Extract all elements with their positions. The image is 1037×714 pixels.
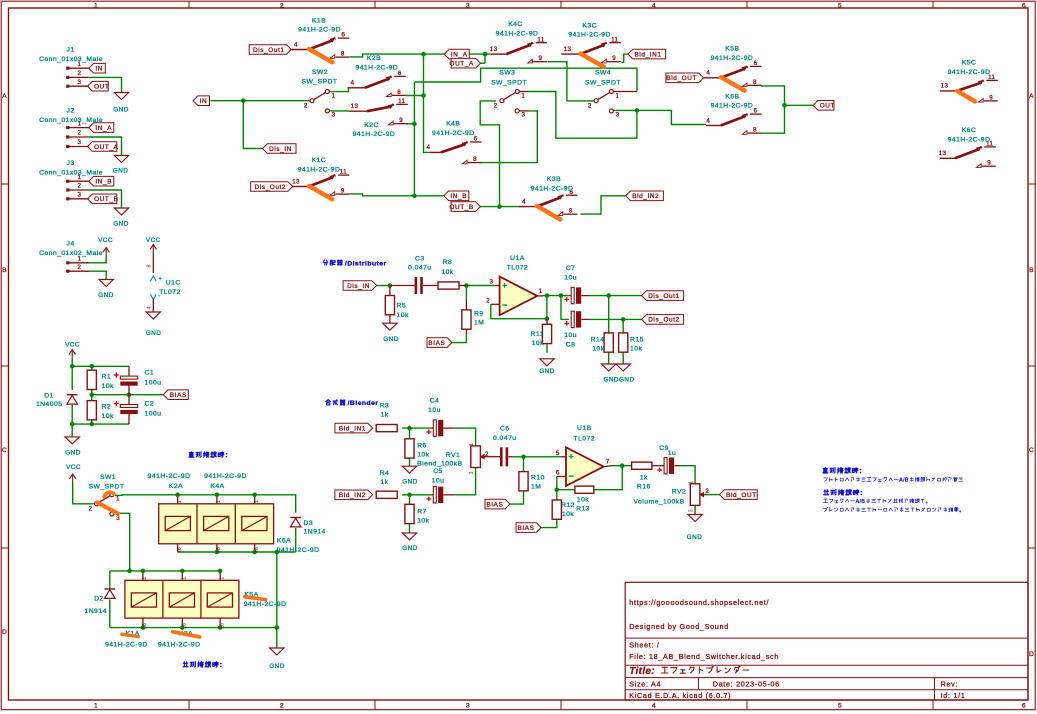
svg-text:A/B: A/B [899, 478, 909, 484]
svg-text:U1B: U1B [577, 425, 592, 432]
svg-text:11: 11 [398, 98, 405, 105]
svg-text:OUT_B: OUT_B [94, 196, 118, 203]
svg-text:C4: C4 [430, 398, 440, 405]
svg-text:13: 13 [564, 46, 572, 53]
svg-text:941H-2C-9D: 941H-2C-9D [432, 130, 475, 137]
svg-text:10k: 10k [102, 413, 114, 420]
svg-text:4: 4 [652, 703, 656, 710]
svg-text:Dis_Out2: Dis_Out2 [254, 184, 286, 191]
svg-text:+: + [114, 398, 119, 408]
svg-text:Title:: Title: [629, 666, 655, 677]
svg-text:3: 3 [469, 471, 475, 474]
svg-text:1N914: 1N914 [304, 529, 326, 536]
svg-text:6: 6 [754, 108, 758, 115]
svg-text:+: + [568, 451, 573, 461]
svg-text:GND: GND [146, 330, 162, 337]
svg-text:R15: R15 [630, 337, 644, 344]
svg-text:R12: R12 [561, 502, 575, 509]
svg-text:K1C: K1C [312, 157, 327, 164]
svg-text:16: 16 [216, 547, 222, 553]
svg-text:10k: 10k [592, 346, 604, 353]
svg-text:16: 16 [182, 623, 188, 629]
svg-text:Designed by Good_Sound: Designed by Good_Sound [629, 622, 729, 631]
svg-text:R7: R7 [417, 509, 427, 516]
svg-text:1: 1 [182, 577, 188, 580]
svg-text:TL072: TL072 [574, 436, 596, 443]
svg-text:5: 5 [838, 703, 842, 710]
svg-text:1k: 1k [380, 412, 388, 419]
svg-text:1: 1 [469, 443, 475, 446]
svg-text:4: 4 [522, 198, 526, 205]
svg-text:R13: R13 [576, 506, 590, 513]
svg-text:Bld_IN2: Bld_IN2 [339, 492, 366, 499]
svg-text:11: 11 [611, 36, 618, 43]
svg-text:K3C: K3C [582, 23, 597, 30]
svg-text:1: 1 [177, 500, 183, 503]
svg-text:C: C [1029, 447, 1034, 454]
svg-text:941H-2C-9D: 941H-2C-9D [531, 186, 574, 193]
svg-text:11: 11 [537, 36, 544, 43]
svg-text:C1: C1 [145, 370, 155, 377]
svg-text:C: C [2, 447, 7, 454]
svg-text:2: 2 [78, 183, 82, 190]
svg-text:2: 2 [78, 264, 82, 271]
svg-text:1: 1 [142, 577, 148, 580]
svg-text:Dis_Out1: Dis_Out1 [253, 47, 285, 54]
svg-text:Dis_IN: Dis_IN [269, 146, 292, 153]
svg-text:+: + [564, 294, 569, 304]
svg-text:SW_SPDT: SW_SPDT [88, 484, 124, 491]
svg-text:OUT_A: OUT_A [94, 144, 119, 151]
svg-text:Dis_Out2: Dis_Out2 [648, 317, 680, 324]
svg-text:SW_SPDT: SW_SPDT [301, 79, 337, 86]
svg-text:D1: D1 [44, 393, 54, 400]
svg-text:10k: 10k [417, 518, 429, 525]
svg-text:941H-2C-9D: 941H-2C-9D [355, 64, 398, 71]
svg-text:Blend_100kB: Blend_100kB [417, 461, 462, 468]
svg-text:VCC: VCC [65, 342, 80, 349]
svg-text:13: 13 [351, 103, 359, 110]
svg-text:2: 2 [88, 506, 92, 513]
svg-text:A: A [2, 93, 7, 100]
svg-text:6: 6 [556, 469, 560, 476]
svg-text:941H-2C-9D: 941H-2C-9D [711, 103, 754, 110]
svg-text:VCC: VCC [146, 237, 161, 244]
svg-text:K4B: K4B [446, 121, 460, 128]
svg-text:1: 1 [219, 577, 225, 580]
svg-text:16: 16 [219, 623, 225, 629]
svg-text:4: 4 [351, 80, 355, 87]
svg-text:IN_B: IN_B [450, 193, 467, 200]
svg-text:Dis_Out1: Dis_Out1 [648, 293, 680, 300]
svg-text:1: 1 [94, 703, 98, 710]
svg-text:941H-2C-9D: 941H-2C-9D [277, 547, 320, 554]
svg-text:3: 3 [466, 2, 470, 9]
svg-text:/Blender: /Blender [348, 400, 379, 407]
svg-text:GND: GND [65, 450, 81, 457]
svg-text:941H-2C-9D: 941H-2C-9D [298, 167, 341, 174]
svg-text:K2A: K2A [169, 483, 183, 490]
svg-text:IN_A: IN_A [451, 51, 468, 58]
svg-text:Date: 2023-05-06: Date: 2023-05-06 [713, 679, 780, 688]
svg-text:1M: 1M [474, 320, 484, 327]
svg-text:R4: R4 [380, 470, 390, 477]
svg-text:1: 1 [539, 288, 543, 295]
svg-text:10k: 10k [532, 340, 544, 347]
svg-text:IN: IN [95, 66, 103, 73]
svg-text:13: 13 [490, 46, 498, 53]
svg-text:4: 4 [706, 70, 710, 77]
svg-text:8: 8 [341, 51, 345, 58]
svg-text:9: 9 [399, 117, 403, 124]
svg-text:3: 3 [616, 112, 620, 119]
svg-text:1N4005: 1N4005 [36, 401, 63, 408]
svg-text:10k: 10k [102, 383, 114, 390]
svg-text:GND: GND [113, 168, 129, 175]
svg-text:R14: R14 [591, 337, 605, 344]
svg-text:8: 8 [397, 89, 401, 96]
svg-text:B: B [2, 267, 7, 274]
svg-text:−: − [568, 471, 573, 481]
svg-text:941H-2C-9D: 941H-2C-9D [105, 641, 148, 648]
svg-text:6: 6 [1022, 703, 1026, 710]
svg-text:4: 4 [294, 41, 298, 48]
svg-text:0.047u: 0.047u [493, 435, 517, 442]
svg-text:1k: 1k [380, 479, 388, 486]
svg-text:5: 5 [556, 450, 560, 457]
svg-text:9: 9 [341, 188, 345, 195]
svg-text:10k: 10k [397, 312, 409, 319]
svg-text:R6: R6 [417, 443, 427, 450]
svg-text:K3B: K3B [547, 176, 561, 183]
svg-text:9: 9 [987, 160, 991, 167]
svg-text:4: 4 [652, 2, 656, 9]
svg-text:2: 2 [705, 488, 709, 495]
svg-text:2: 2 [78, 130, 82, 137]
svg-text:3: 3 [116, 515, 120, 522]
svg-text:10k: 10k [630, 346, 642, 353]
svg-text:3: 3 [688, 509, 694, 512]
svg-text:9: 9 [612, 55, 616, 62]
svg-text:J4: J4 [67, 241, 75, 248]
svg-text:C3: C3 [415, 255, 425, 262]
svg-text:VCC: VCC [66, 464, 81, 471]
svg-text:941H-2C-9D: 941H-2C-9D [244, 601, 287, 608]
svg-text:1: 1 [688, 481, 694, 484]
svg-text:941H-2C-9D: 941H-2C-9D [148, 473, 191, 480]
svg-text:RV1: RV1 [446, 452, 460, 459]
svg-text:K6A: K6A [277, 537, 291, 544]
svg-text:BIAS: BIAS [517, 525, 534, 532]
svg-text:GND: GND [402, 479, 418, 486]
svg-text:10k: 10k [417, 452, 429, 459]
svg-text:IN_B: IN_B [95, 179, 112, 186]
svg-text:K4C: K4C [508, 21, 523, 28]
svg-text:16: 16 [142, 623, 148, 629]
svg-text:941H-2C-9D: 941H-2C-9D [298, 27, 341, 34]
svg-text:Bld_IN1: Bld_IN1 [635, 51, 662, 58]
svg-text:3: 3 [466, 703, 470, 710]
svg-text:6: 6 [398, 70, 402, 77]
svg-text:SW_SPDT: SW_SPDT [585, 79, 621, 86]
svg-text:R3: R3 [380, 402, 390, 409]
svg-text:GND: GND [402, 545, 418, 552]
svg-text:100u: 100u [145, 380, 162, 387]
svg-text:4: 4 [426, 144, 430, 151]
svg-text:5: 5 [838, 2, 842, 9]
svg-text:16: 16 [254, 547, 260, 553]
svg-text:K2C: K2C [364, 122, 379, 129]
svg-text:Bld_IN1: Bld_IN1 [339, 425, 366, 432]
svg-text:3: 3 [489, 279, 493, 286]
svg-text:GND: GND [269, 663, 285, 670]
svg-text:+: + [114, 370, 119, 380]
svg-text:A: A [1029, 93, 1034, 100]
svg-text:Conn_01x03_Male: Conn_01x03_Male [39, 170, 103, 177]
svg-text:R16: R16 [637, 484, 651, 491]
svg-text:10u: 10u [428, 407, 441, 414]
svg-text:RV2: RV2 [672, 488, 686, 495]
svg-text:+: + [158, 276, 162, 283]
svg-text:J2: J2 [67, 108, 75, 115]
svg-text:Rev:: Rev: [941, 679, 959, 688]
svg-text:TL072: TL072 [159, 289, 181, 296]
svg-text:10u: 10u [564, 332, 577, 339]
svg-text:+: + [502, 280, 507, 290]
svg-text:2: 2 [280, 703, 284, 710]
svg-text:8: 8 [753, 79, 757, 86]
svg-text:OUT: OUT [94, 84, 109, 91]
svg-text:C8: C8 [566, 342, 576, 349]
svg-text:941H-2C-9D: 941H-2C-9D [158, 641, 201, 648]
svg-text:941H-2C-9D: 941H-2C-9D [948, 69, 991, 76]
svg-text:C7: C7 [566, 265, 576, 272]
svg-text:BIAS: BIAS [170, 392, 187, 399]
svg-text:GND: GND [113, 107, 129, 114]
svg-text:7: 7 [606, 458, 610, 465]
svg-text:4: 4 [146, 307, 152, 310]
svg-text:File: 18_AB_Blend_Switcher.kic: File: 18_AB_Blend_Switcher.kicad_sch [629, 652, 779, 661]
svg-text:Conn_01x03_Male: Conn_01x03_Male [39, 117, 103, 124]
svg-text:Dis_IN: Dis_IN [347, 283, 370, 290]
svg-text:OUT_A: OUT_A [449, 61, 474, 68]
svg-text:R5: R5 [397, 303, 407, 310]
svg-text:IN: IN [200, 98, 208, 105]
svg-text:R2: R2 [102, 404, 112, 411]
svg-text:13: 13 [292, 178, 300, 185]
svg-text:8: 8 [146, 265, 152, 268]
svg-text:1: 1 [254, 500, 260, 503]
svg-text:941H-2C-9D: 941H-2C-9D [204, 473, 247, 480]
svg-text:+: + [426, 493, 431, 503]
svg-text:D2: D2 [94, 595, 104, 602]
svg-text:0.047u: 0.047u [408, 265, 432, 272]
svg-text:IN_A: IN_A [95, 125, 112, 132]
svg-text:D: D [1029, 651, 1034, 658]
svg-text:K5B: K5B [725, 46, 739, 53]
svg-text:KiCad E.D.A. kicad (6.0.7): KiCad E.D.A. kicad (6.0.7) [629, 691, 731, 700]
svg-text:9: 9 [539, 55, 543, 62]
svg-text:D: D [2, 629, 7, 636]
svg-text:Size: A4: Size: A4 [629, 679, 661, 688]
svg-text:941H-2C-9D: 941H-2C-9D [568, 32, 611, 39]
svg-text:10u: 10u [564, 275, 577, 282]
svg-text:1k: 1k [640, 475, 648, 482]
svg-text:13: 13 [939, 150, 947, 157]
svg-text:Volume_100kB: Volume_100kB [633, 498, 684, 505]
svg-text:Sheet: /: Sheet: / [629, 641, 659, 650]
svg-text:Bld_OUT: Bld_OUT [666, 75, 697, 82]
svg-text:U1A: U1A [510, 255, 525, 262]
svg-text:100u: 100u [145, 411, 162, 418]
svg-text:J1: J1 [67, 47, 75, 54]
svg-text:U1C: U1C [166, 279, 181, 286]
svg-text:SW_SPDT: SW_SPDT [491, 79, 527, 86]
svg-text:J3: J3 [67, 160, 75, 167]
svg-text:K6B: K6B [725, 94, 739, 101]
svg-text:BIAS: BIAS [428, 340, 445, 347]
svg-text:1: 1 [616, 93, 620, 100]
svg-text:3: 3 [522, 112, 526, 119]
svg-text:11: 11 [340, 169, 347, 176]
svg-text:+: + [426, 427, 431, 437]
svg-text:K4A: K4A [210, 483, 224, 490]
svg-text:16: 16 [177, 547, 183, 553]
svg-text:OUT_B: OUT_B [449, 204, 473, 211]
svg-text:6: 6 [1022, 2, 1026, 9]
svg-text:2: 2 [280, 2, 284, 9]
svg-text:A/B: A/B [856, 499, 866, 505]
svg-text:1: 1 [116, 496, 120, 503]
svg-text:BIAS: BIAS [486, 501, 503, 508]
svg-text:2: 2 [486, 297, 490, 304]
svg-text:GNDGND: GNDGND [603, 377, 634, 384]
svg-text:3: 3 [78, 79, 82, 86]
svg-text:R11: R11 [531, 331, 544, 338]
svg-text:3: 3 [78, 192, 82, 199]
svg-text:Bld_OUT: Bld_OUT [726, 492, 757, 499]
svg-text:SW1: SW1 [100, 474, 116, 481]
svg-text:/Distributer: /Distributer [345, 260, 387, 267]
svg-text:K5C: K5C [962, 60, 977, 67]
svg-text:https://goooodsound.shopselect: https://goooodsound.shopselect.net/ [629, 598, 769, 607]
svg-text:1: 1 [216, 500, 222, 503]
svg-text:K2B: K2B [367, 55, 381, 62]
svg-text:2: 2 [78, 70, 82, 77]
svg-text:+: + [657, 464, 662, 474]
svg-text:6: 6 [341, 32, 345, 39]
svg-text:4: 4 [706, 117, 710, 124]
svg-text:OUT: OUT [820, 103, 835, 110]
svg-text:941H-2C-9D: 941H-2C-9D [496, 31, 539, 38]
svg-text:1: 1 [94, 2, 98, 9]
svg-text:8: 8 [473, 156, 477, 163]
svg-text:B: B [1029, 267, 1034, 274]
svg-text:941H-2C-9D: 941H-2C-9D [711, 55, 754, 62]
svg-text:-: - [158, 293, 161, 300]
svg-text:13: 13 [941, 83, 949, 90]
svg-text:C2: C2 [145, 401, 155, 408]
svg-text:R10: R10 [531, 475, 545, 482]
svg-text:C5: C5 [433, 468, 443, 475]
svg-text:2: 2 [588, 103, 592, 110]
svg-text:1M: 1M [531, 484, 541, 491]
svg-text:R9: R9 [474, 311, 484, 318]
svg-text:VCC: VCC [98, 237, 113, 244]
svg-text:GND: GND [113, 221, 129, 228]
svg-text:K1B: K1B [312, 17, 326, 24]
svg-text:+: + [564, 318, 569, 328]
svg-text:2: 2 [304, 103, 308, 110]
svg-text:941H-2C-9D: 941H-2C-9D [353, 131, 396, 138]
svg-text:−: − [502, 300, 507, 310]
svg-text:3: 3 [332, 112, 336, 119]
svg-text:6: 6 [754, 60, 758, 67]
svg-text:1u: 1u [668, 450, 676, 457]
svg-text:GND: GND [98, 292, 114, 299]
svg-text:SW2: SW2 [312, 69, 328, 76]
svg-text:TL072: TL072 [507, 264, 529, 271]
svg-text:Conn_01x02_Male: Conn_01x02_Male [39, 250, 103, 257]
svg-text:1: 1 [331, 93, 335, 100]
svg-text:8: 8 [569, 208, 573, 215]
svg-text:GND: GND [687, 534, 703, 541]
svg-text:8: 8 [753, 127, 757, 134]
svg-text:GND: GND [539, 368, 555, 375]
svg-text:D3: D3 [304, 520, 314, 527]
svg-text:Bld_IN2: Bld_IN2 [632, 193, 659, 200]
svg-text:1N914: 1N914 [85, 608, 107, 615]
svg-text:R8: R8 [443, 259, 453, 266]
svg-text:10u: 10u [432, 478, 445, 485]
svg-text:Conn_01x03_Male: Conn_01x03_Male [39, 56, 103, 63]
svg-text:Id: 1/1: Id: 1/1 [941, 691, 966, 700]
svg-text:10k: 10k [577, 497, 589, 504]
svg-text:941H-2C-9D: 941H-2C-9D [948, 137, 991, 144]
svg-text:K6C: K6C [962, 127, 977, 134]
svg-text:10k: 10k [562, 511, 574, 518]
svg-text:GND: GND [383, 336, 399, 343]
svg-text:R1: R1 [102, 374, 112, 381]
svg-text:SW4: SW4 [595, 70, 611, 77]
svg-text:SW3: SW3 [499, 70, 515, 77]
svg-text:9: 9 [989, 94, 993, 101]
svg-text:1: 1 [521, 93, 525, 100]
svg-text:2: 2 [494, 103, 498, 110]
svg-text:3: 3 [78, 139, 82, 146]
svg-text:C6: C6 [500, 426, 510, 433]
svg-text:10k: 10k [441, 269, 453, 276]
